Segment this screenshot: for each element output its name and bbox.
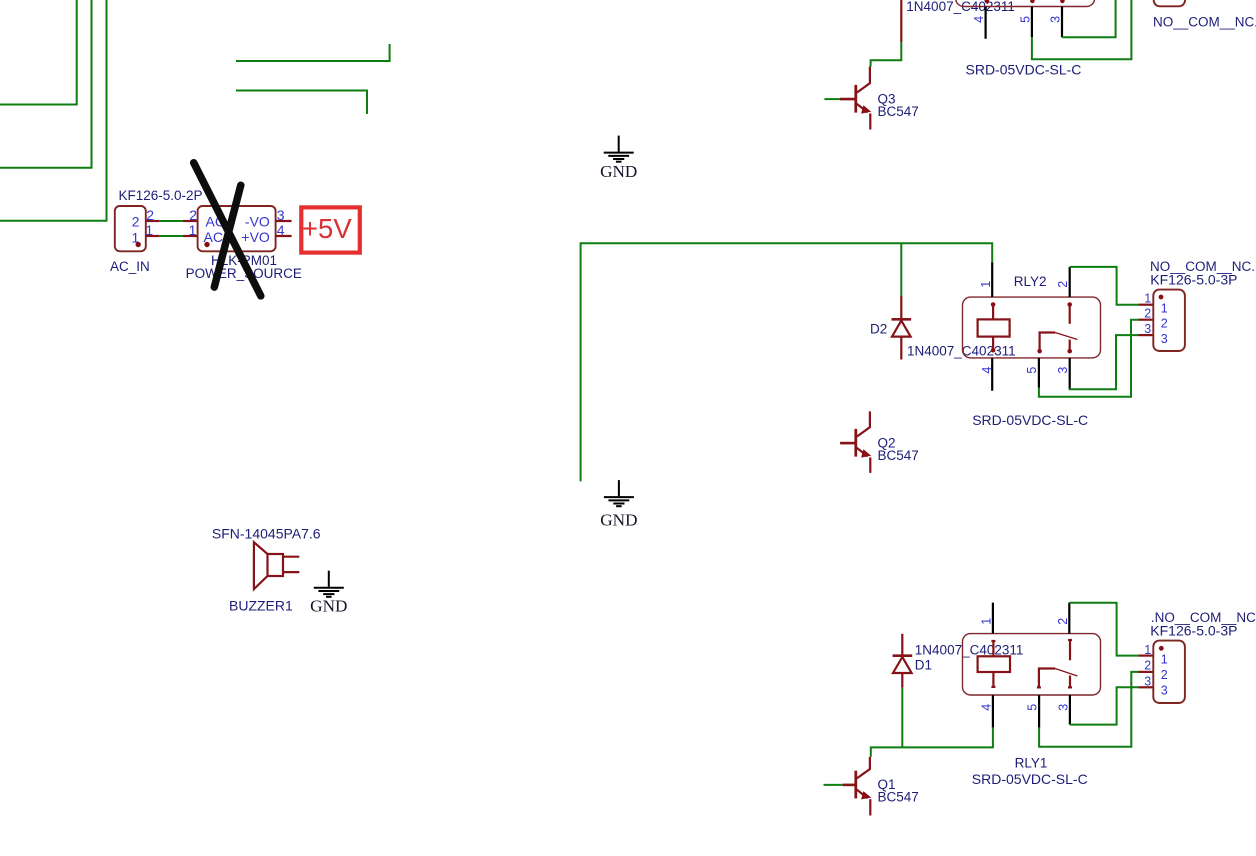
svg-text:1: 1 (979, 618, 993, 625)
wire Q1 base (824, 784, 843, 786)
svg-text:GND: GND (310, 597, 347, 616)
pin 1 stub (1139, 304, 1154, 306)
RLY1 pin 3 (1069, 695, 1071, 725)
svg-text:SRD-05VDC-SL-C: SRD-05VDC-SL-C (972, 771, 1088, 787)
wire +5V rail to RLY2 (long L wire) (581, 243, 993, 481)
RLY2 armature (1055, 333, 1077, 340)
svg-text:4: 4 (277, 222, 285, 238)
RLY2 switch pole lead (1069, 305, 1071, 324)
svg-text:SFN-14045PA7.6: SFN-14045PA7.6 (212, 525, 321, 541)
pin 1 marker dot (204, 242, 209, 247)
diode D2 1N4007 (870, 296, 1016, 360)
RLY3 pin 5 (1031, 7, 1033, 38)
svg-text:KF126-5.0-3P: KF126-5.0-3P (1150, 271, 1237, 287)
RLY1 coil (978, 656, 1010, 672)
RLY1 NC contact lead (1068, 676, 1072, 688)
wire AC_IN to HLK row1 (159, 235, 183, 237)
svg-text:1N4007_C402311: 1N4007_C402311 (907, 344, 1016, 359)
connector AC_IN body (115, 206, 146, 251)
Q2 base bar (854, 429, 857, 457)
svg-text:-VO: -VO (245, 214, 270, 230)
transistor Q3 BC547 (824, 67, 918, 130)
transistor Q1 BC547 (824, 757, 919, 816)
Q2 collector (857, 411, 870, 436)
annotation X cross-out stroke 1 (194, 163, 261, 296)
svg-text:2: 2 (1161, 668, 1168, 682)
svg-text:2: 2 (1144, 307, 1151, 321)
svg-text:4: 4 (979, 704, 993, 711)
wire AC_IN to HLK row2 (159, 220, 183, 222)
Q3 emitter (857, 104, 868, 113)
D2 anode lead (900, 337, 902, 360)
connector KF126-5.0-3P body (RLY3, cropped) (1154, 0, 1185, 6)
D1 cathode bar (893, 654, 913, 657)
pin 1 stub (AC) (183, 235, 198, 237)
svg-text:AC_IN: AC_IN (110, 259, 150, 274)
RLY1 switch NO contact (1037, 669, 1055, 688)
Q2 emitter arrow (861, 449, 871, 457)
power module POWER_SOURCE HLK-PM01 (183, 206, 302, 281)
wire D2 cathode feed (900, 243, 902, 296)
wire RLY2 pin3 to connector pin3 (1070, 335, 1139, 389)
pin 3 stub (1139, 686, 1154, 688)
Q3 emitter lead (869, 113, 871, 129)
svg-text:2: 2 (132, 214, 140, 230)
RLY1 pin 1 (992, 603, 994, 634)
RLY1 armature (1055, 669, 1077, 677)
svg-text:+VO: +VO (241, 229, 270, 245)
wire Q3 base (824, 98, 840, 100)
svg-text:5: 5 (1018, 16, 1032, 23)
D1 cathode lead (901, 634, 903, 657)
wire RLY1 pin5 to connector pin2 (1039, 672, 1139, 747)
wire net2 top-left (0, 0, 92, 168)
pin 4 stub (+VO) (276, 235, 292, 237)
Q2 emitter (857, 448, 868, 457)
svg-text:2: 2 (189, 207, 197, 223)
D1 triangle (893, 657, 912, 673)
ground GND (middle) (600, 480, 637, 529)
svg-text:D2: D2 (870, 322, 887, 337)
RLY2 pin 2 (1069, 267, 1071, 297)
Q1 emitter lead (869, 799, 871, 815)
svg-text:1N4007_C402311: 1N4007_C402311 (915, 642, 1024, 657)
Q1 emitter (857, 790, 868, 799)
buzzer BUZZER1 SFN-14045PA7.6 (212, 525, 321, 613)
RLY3 coil bottom lead end (985, 0, 990, 3)
net flag +5V (red box annotation) (301, 207, 360, 252)
svg-text:BC547: BC547 (878, 790, 919, 805)
svg-text:1: 1 (979, 281, 993, 288)
pin 3 stub (-VO) (276, 220, 292, 222)
svg-text:4: 4 (972, 16, 986, 23)
D2 cathode lead (900, 296, 902, 320)
RLY1 pin 5 (1038, 695, 1040, 728)
wire D1 anode down (901, 688, 903, 748)
Q1 collector (857, 757, 870, 779)
svg-text:2: 2 (146, 207, 154, 223)
svg-text:2: 2 (1161, 316, 1168, 330)
RLY1 pin 4 (992, 695, 994, 728)
svg-text:+5V: +5V (302, 213, 352, 244)
D2 triangle (892, 321, 911, 337)
wire net4 upper-middle (236, 44, 390, 61)
svg-text:GND: GND (600, 162, 637, 181)
pin 2 stub (AC) (183, 220, 198, 222)
Q3 base lead (840, 98, 856, 101)
Q1 base lead (843, 784, 856, 787)
RLY2 coil bottom lead (992, 337, 994, 351)
relay RLY3 body (cropped) (956, 0, 1095, 7)
svg-text:1: 1 (1144, 643, 1151, 657)
svg-text:1: 1 (145, 222, 153, 238)
svg-text:RLY1: RLY1 (1015, 755, 1048, 770)
svg-text:BC547: BC547 (878, 448, 919, 463)
svg-text:3: 3 (277, 207, 285, 223)
RLY2 pin 3 (1069, 358, 1071, 389)
RLY3 switch NO contact end (1030, 0, 1035, 3)
relay RLY1 SRD-05VDC-SL-C (963, 603, 1101, 787)
pin 2 stub (1139, 319, 1154, 321)
diode D3 anode lead (top, cropped) (900, 0, 902, 42)
svg-text:3: 3 (1161, 332, 1168, 346)
pin 3 stub (1139, 334, 1154, 336)
wire RLY3 pin5 to connector pin2 (1032, 0, 1132, 59)
Q1 base bar (854, 771, 857, 799)
svg-text:5: 5 (1025, 367, 1039, 374)
wire RLY1 pin3 to connector pin3 (1070, 687, 1139, 724)
pin 1 stub (146, 235, 160, 237)
connector KF126-5.0-3P (RLY1 output) (1139, 610, 1256, 703)
RLY2 body (963, 297, 1101, 358)
connector body (1153, 641, 1185, 703)
svg-text:1: 1 (1161, 301, 1168, 315)
svg-text:2: 2 (1144, 658, 1151, 672)
connector KF126-5.0-3P (RLY2 output) (1139, 259, 1256, 351)
ground GND (buzzer) (310, 571, 347, 616)
svg-text:D1: D1 (915, 657, 932, 672)
svg-text:3: 3 (1161, 683, 1168, 697)
wire net3 top-left (0, 0, 107, 221)
RLY2 coil (978, 319, 1010, 336)
svg-text:1: 1 (1161, 653, 1168, 667)
RLY1 body (963, 634, 1101, 695)
pin 1 marker dot (1159, 646, 1164, 651)
wire RLY3 pin3 to connector pin3 (1062, 0, 1116, 37)
RLY1 coil bottom lead (991, 672, 995, 687)
pin 2 stub (146, 220, 160, 222)
svg-text:GND: GND (600, 510, 637, 529)
svg-text:NO__COM__NC.: NO__COM__NC. (1153, 14, 1256, 29)
RLY1 switch pole lead (1068, 640, 1072, 660)
svg-text:2: 2 (1056, 281, 1070, 288)
svg-text:3: 3 (1049, 16, 1063, 23)
svg-text:3: 3 (1056, 367, 1070, 374)
wire RLY1 pin2 to connector pin1 (1069, 603, 1139, 656)
pin 1 marker dot (1159, 295, 1164, 300)
HLK-PM01 body (198, 206, 276, 251)
svg-text:3: 3 (1144, 322, 1151, 336)
RLY2 pin 1 (991, 262, 993, 297)
svg-text:SRD-05VDC-SL-C: SRD-05VDC-SL-C (972, 412, 1088, 428)
RLY2 coil top lead (992, 305, 994, 320)
svg-text:BUZZER1: BUZZER1 (229, 598, 293, 614)
Q2 base lead (840, 442, 856, 445)
wire RLY2 pin5 to connector pin2 (1039, 320, 1139, 397)
transistor Q2 BC547 (840, 411, 919, 473)
RLY3 pin 3 (1061, 7, 1063, 38)
Q3 emitter arrow (861, 105, 871, 113)
ground GND (upper) (600, 136, 637, 182)
wire RLY1 pin4 to Q1 collector (871, 728, 993, 757)
buzzer horn (254, 542, 268, 589)
annotation X cross-out stroke 2 (214, 185, 241, 287)
pin 1 stub (1139, 654, 1154, 656)
wire RLY2 pin2 to connector pin1 (1070, 267, 1139, 305)
pin 2 stub (283, 571, 299, 573)
svg-text:BC547: BC547 (878, 104, 919, 119)
RLY2 NC contact lead (1069, 340, 1071, 352)
RLY2 pin 4 (991, 358, 993, 391)
RLY1 coil top lead (991, 641, 995, 656)
Q3 base bar (854, 85, 857, 113)
svg-text:5: 5 (1026, 704, 1040, 711)
connector body (1153, 290, 1185, 351)
wire D3 anode to Q3 collector (871, 42, 902, 67)
svg-text:1: 1 (189, 222, 197, 238)
wire net1 top-left (0, 0, 77, 105)
svg-text:RLY2: RLY2 (1014, 274, 1047, 289)
D2 cathode bar (892, 318, 912, 321)
svg-text:1: 1 (1144, 292, 1151, 306)
buzzer body box (268, 554, 284, 576)
svg-text:KF126-5.0-3P: KF126-5.0-3P (1150, 623, 1237, 639)
svg-text:3: 3 (1056, 704, 1070, 711)
RLY1 pin 2 (1068, 603, 1070, 634)
D1 anode lead (901, 672, 903, 687)
connector AC_IN KF126-5.0-2P (110, 188, 203, 274)
pin 1 marker dot (136, 242, 141, 247)
svg-text:3: 3 (1144, 674, 1151, 688)
svg-text:KF126-5.0-2P: KF126-5.0-2P (119, 188, 203, 203)
pin 2 stub (1139, 671, 1154, 673)
RLY2 switch NO contact (1040, 333, 1056, 352)
RLY3 NC contact end (1060, 0, 1065, 3)
diode D1 1N4007 (893, 634, 1024, 688)
RLY2 pin 5 (1038, 358, 1040, 388)
Q1 emitter arrow (861, 791, 871, 799)
Q3 collector (857, 67, 870, 93)
Q2 emitter lead (869, 457, 871, 473)
wire net5 upper-middle (236, 91, 367, 115)
RLY3 pin 4 (984, 7, 986, 39)
svg-text:SRD-05VDC-SL-C: SRD-05VDC-SL-C (966, 62, 1082, 78)
relay RLY2 SRD-05VDC-SL-C (963, 262, 1101, 428)
pin 1 stub (283, 556, 299, 558)
svg-text:2: 2 (1056, 618, 1070, 625)
svg-text:4: 4 (980, 367, 994, 374)
